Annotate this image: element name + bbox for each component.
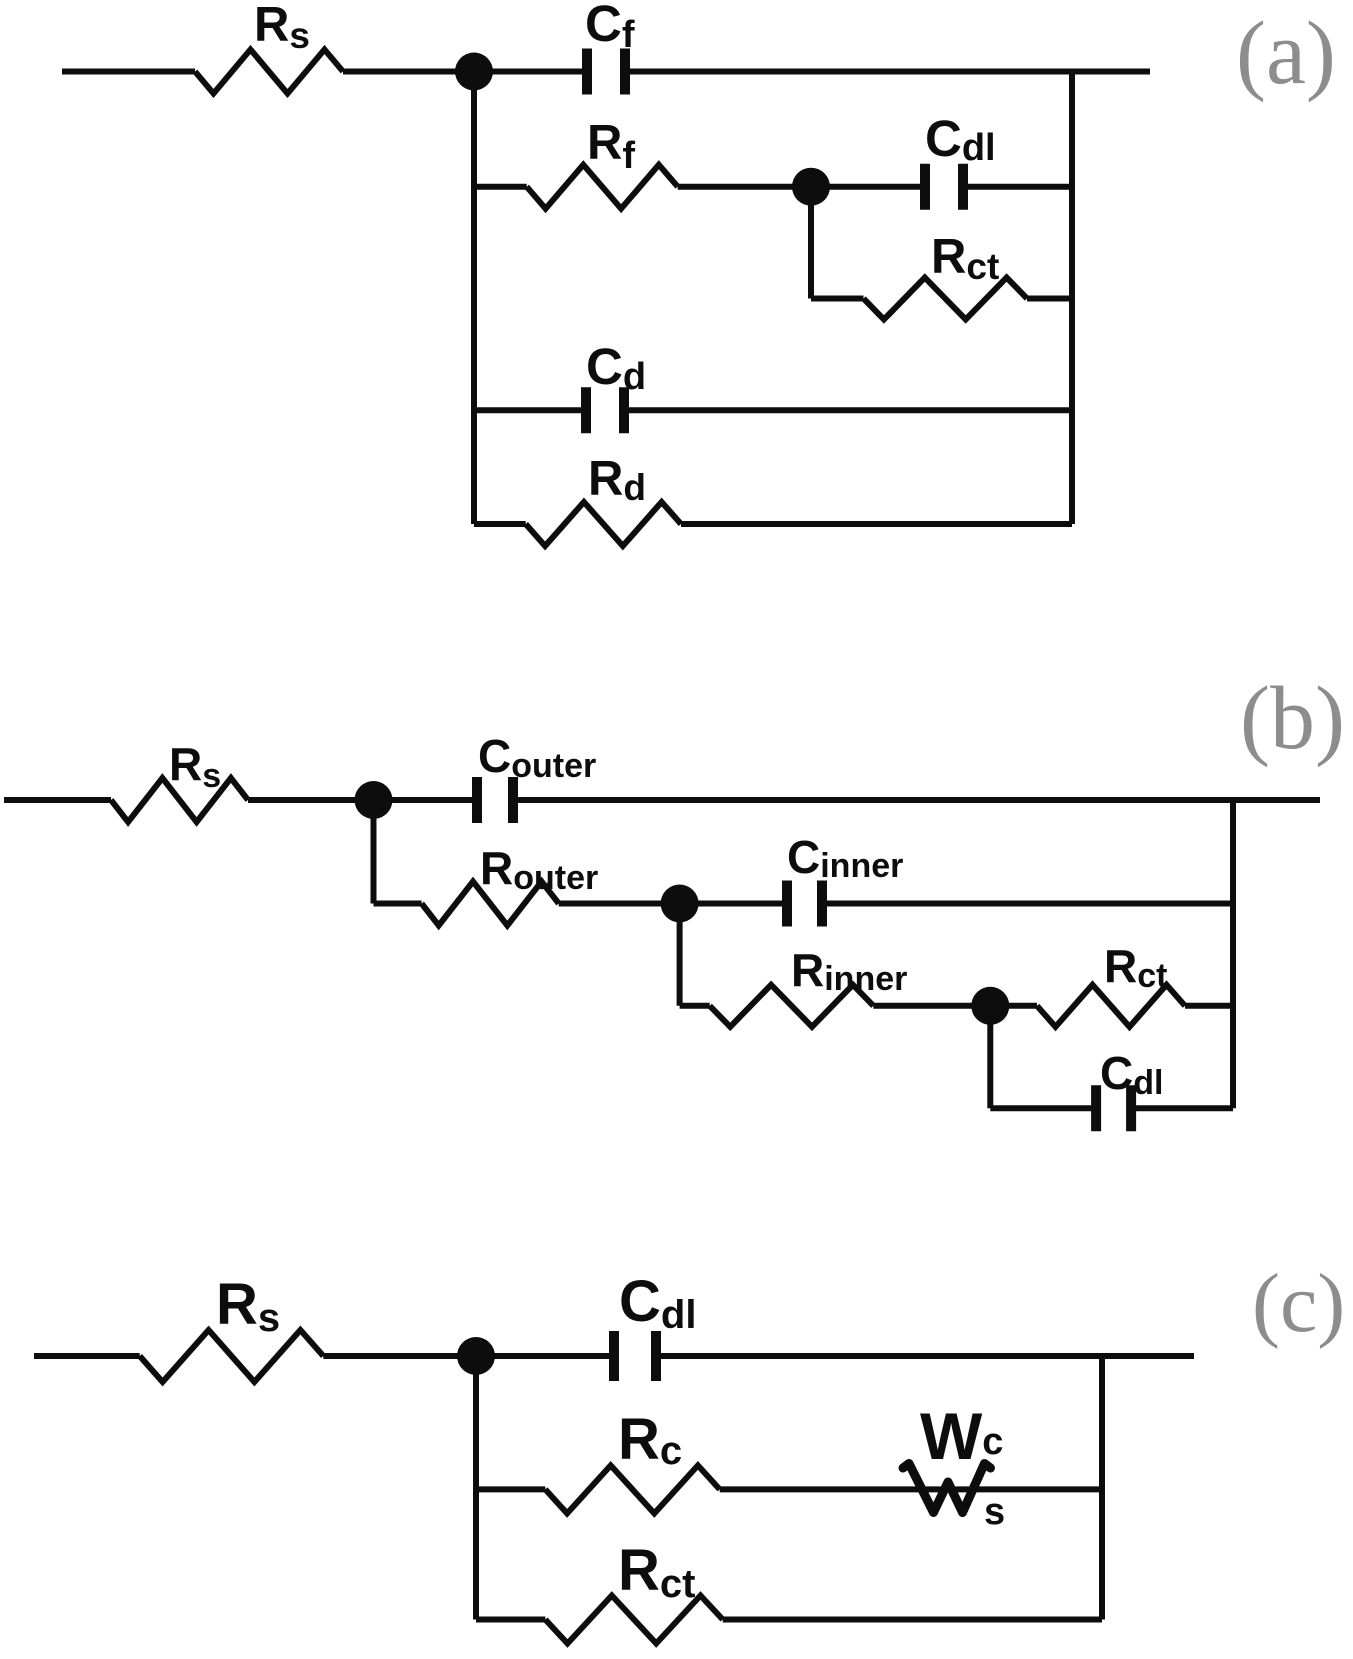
wire: junction to Rct (b) [990,1003,1037,1009]
wire: Rct to bus (a) [1027,296,1072,302]
wire: Rinner lead (b) [680,1003,710,1009]
capacitor Cdl (c) [614,1331,656,1381]
svg-text:s: s [984,1491,1005,1533]
wire: Rs to junction (b) [248,797,374,803]
wire: left vertical bus (c) [473,1356,479,1620]
wire: Rf to junction (a) [678,184,811,190]
node: inner junction (b) [661,885,699,923]
node: main junction (a) [455,53,493,91]
svg-text:Cinner: Cinner [787,831,903,885]
wire: Cdl to right end (c) [661,1353,1194,1359]
wire: Cd to bus (a) [629,407,1072,413]
node: Rf-Cdl junction (a) [792,168,830,206]
svg-text:Rd: Rd [588,452,646,508]
wire: junction vertical to Rct (a) [808,187,814,299]
wire: Rf branch lead (a) [474,184,527,190]
svg-text:Rs: Rs [216,1272,280,1340]
resistor Rs (c) [140,1330,324,1382]
wire: Rct to bus (b) [1185,1003,1233,1009]
wire: left vertical bus (a) [471,72,477,525]
wire: Rc to Warburg (c) [720,1486,1102,1492]
capacitor Cdl (a) [925,164,963,210]
wire: Cdl to bus (b) [1135,1105,1233,1111]
node: outer junction (b) [355,781,393,819]
resistor Rct (c) [545,1596,722,1644]
resistor Rct (b) [1037,985,1185,1027]
svg-text:Router: Router [480,842,598,897]
svg-text:(b): (b) [1240,669,1345,768]
node: Rct junction (b) [971,987,1009,1025]
wire: junction to Cdl (a) [811,184,925,190]
wire: Rct lead (a) [811,296,864,302]
wire: Cdl to bus (a) [963,184,1072,190]
wire: Cdl lead (b) [990,1105,1092,1111]
wire: Router lead (b) [374,901,422,907]
resistor Router (b) [422,882,559,926]
node: main junction (c) [457,1337,495,1375]
svg-text:Rc: Rc [618,1407,682,1473]
wire: input lead (c) [34,1353,140,1359]
wire: Rinner to junction (b) [873,1003,990,1009]
svg-text:Cdl: Cdl [619,1269,696,1337]
svg-text:Cd: Cd [586,338,646,398]
svg-text:(c): (c) [1252,1257,1345,1350]
resistor Rs (b) [111,778,248,822]
wire: Couter to right end (b) [517,797,1320,803]
resistor Rinner (b) [710,985,874,1027]
wire: Router to junction (b) [559,901,680,907]
resistor Rd (a) [526,502,681,546]
wire: Rct branch lead (c) [476,1617,545,1623]
svg-text:(a): (a) [1236,4,1336,103]
svg-text:Cf: Cf [585,0,635,56]
wire: right vertical bus (a) [1069,72,1075,525]
capacitor Cf (a) [587,49,625,95]
wire: junction to Couter (b) [374,797,474,803]
wire: right vertical bus (b) [1230,800,1236,1108]
wire: input lead (a) [62,69,195,75]
svg-text:Rf: Rf [587,116,635,177]
capacitor Cinner (b) [787,881,822,927]
wire: Rd branch lead (a) [474,521,526,527]
capacitor Cd (a) [586,387,624,433]
wire: junction to Cdl (c) [476,1353,609,1359]
svg-text:Cdl: Cdl [925,110,996,169]
wire: junction to Cinner (b) [680,901,783,907]
wire: Rc branch lead (c) [476,1486,545,1492]
wire: Cf to right end (a) [630,69,1150,75]
wire: Cd branch lead (a) [474,407,582,413]
wire: input lead (b) [4,797,111,803]
svg-text:Cdl: Cdl [1100,1047,1163,1102]
svg-text:Rct: Rct [931,230,999,287]
capacitor Couter (b) [477,777,513,823]
resistor Rs (a) [195,50,343,94]
wire: Rs to junction (a) [343,69,474,75]
svg-text:Rct: Rct [618,1538,695,1606]
wire: inner junction vertical (b) [677,904,683,1006]
svg-text:Rinner: Rinner [791,944,907,998]
resistor Rc (c) [545,1465,719,1513]
svg-text:Couter: Couter [478,730,596,785]
capacitor Cdl (b) [1096,1085,1131,1131]
svg-text:Rct: Rct [1104,940,1167,995]
svg-text:Wc: Wc [920,1399,1003,1473]
wire: Rd to bus (a) [681,521,1072,527]
wire: outer junction vertical (b) [371,800,377,904]
warburg Ws symbol (c) [903,1464,991,1513]
resistor Rct (a) [864,278,1028,320]
wire: right vertical bus (c) [1099,1356,1105,1620]
wire: Rct to bus (c) [723,1617,1102,1623]
wire: Cinner to bus (b) [826,901,1233,907]
wire: Rs to junction (c) [323,1353,476,1359]
svg-text:Rs: Rs [169,738,221,795]
svg-text:Rs: Rs [254,0,310,56]
wire: Rct junction vertical (b) [987,1006,993,1108]
resistor Rf (a) [527,165,678,209]
wire: junction to Cf (a) [474,69,582,75]
